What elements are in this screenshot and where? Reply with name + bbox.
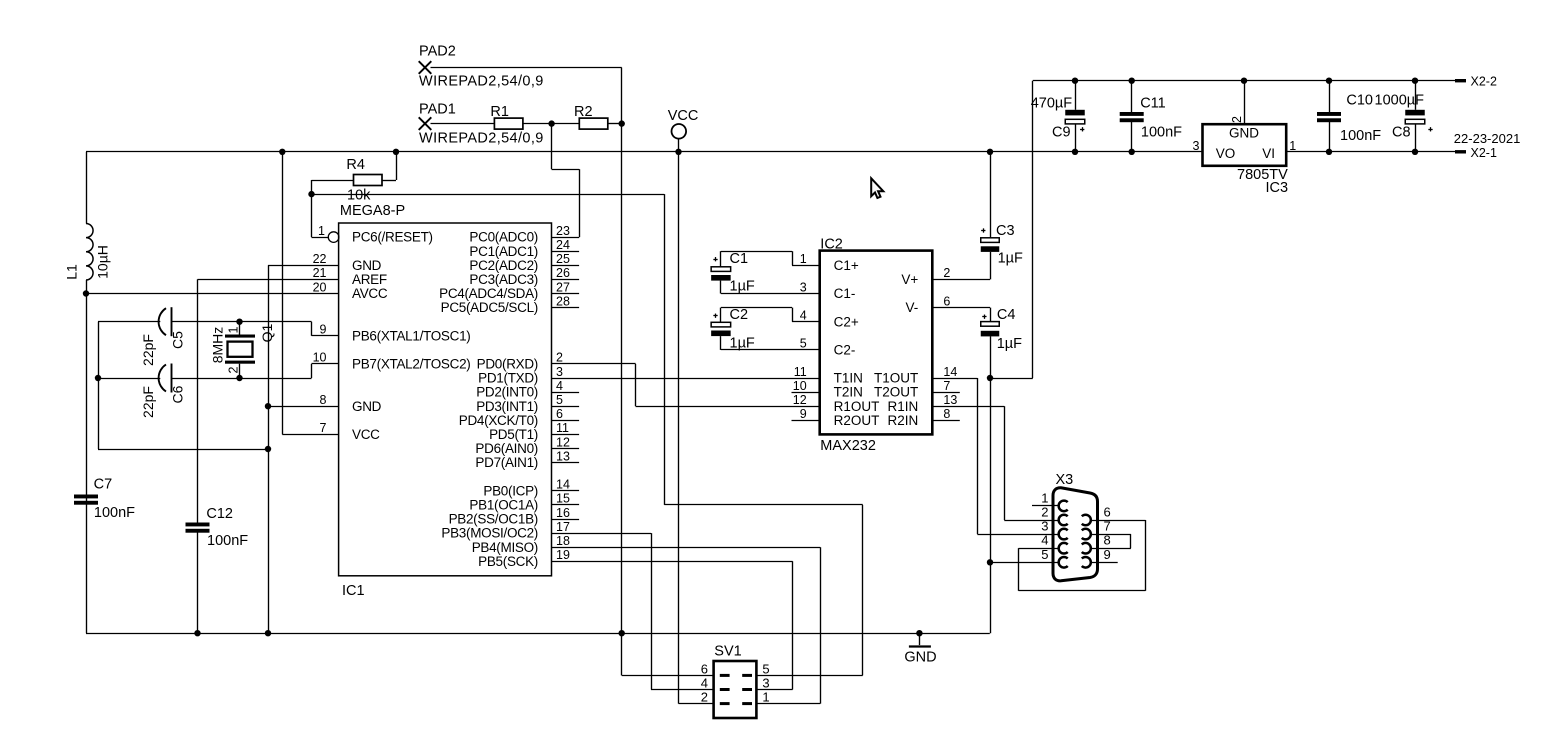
svg-text:7: 7 [943, 379, 950, 393]
svg-text:10: 10 [313, 351, 327, 365]
svg-text:WIREPAD2,54/0,9: WIREPAD2,54/0,9 [419, 131, 544, 147]
svg-text:T1IN: T1IN [834, 371, 863, 386]
svg-text:T2OUT: T2OUT [874, 385, 918, 400]
svg-text:L1: L1 [64, 264, 80, 280]
svg-text:100nF: 100nF [207, 533, 248, 549]
svg-text:PD3(INT1): PD3(INT1) [476, 399, 538, 414]
svg-text:R4: R4 [346, 157, 365, 173]
svg-text:PC6(/RESET): PC6(/RESET) [352, 230, 433, 245]
svg-text:PD5(T1): PD5(T1) [489, 427, 538, 442]
svg-text:23: 23 [556, 224, 570, 238]
svg-text:R1IN: R1IN [888, 399, 919, 414]
svg-text:VO: VO [1216, 146, 1236, 161]
svg-text:IC3: IC3 [1266, 180, 1289, 196]
svg-text:12: 12 [793, 393, 807, 407]
svg-text:11: 11 [794, 365, 807, 379]
svg-text:17: 17 [556, 520, 570, 534]
svg-text:1: 1 [318, 224, 325, 238]
svg-text:X2-1: X2-1 [1471, 146, 1497, 160]
svg-text:12: 12 [556, 435, 570, 449]
svg-text:19: 19 [556, 548, 570, 562]
svg-text:22pF: 22pF [140, 334, 156, 366]
svg-text:GND: GND [1229, 126, 1259, 141]
svg-text:C1: C1 [730, 251, 749, 267]
svg-text:WIREPAD2,54/0,9: WIREPAD2,54/0,9 [419, 73, 544, 89]
svg-text:6: 6 [701, 661, 708, 676]
svg-text:25: 25 [556, 252, 570, 266]
svg-text:1: 1 [800, 252, 807, 266]
svg-text:1µF: 1µF [998, 251, 1023, 267]
svg-text:2: 2 [556, 351, 563, 365]
svg-text:22-23-2021: 22-23-2021 [1454, 131, 1521, 146]
svg-text:C2+: C2+ [834, 314, 859, 329]
svg-text:1: 1 [1289, 139, 1296, 153]
svg-text:11: 11 [556, 421, 569, 435]
svg-text:PB0(ICP): PB0(ICP) [483, 483, 538, 498]
svg-text:C12: C12 [206, 506, 233, 522]
svg-text:10k: 10k [347, 188, 371, 204]
svg-text:20: 20 [313, 280, 327, 294]
svg-text:18: 18 [556, 534, 570, 548]
svg-text:V-: V- [906, 300, 919, 315]
svg-text:VCC: VCC [668, 108, 699, 124]
svg-text:5: 5 [800, 337, 807, 351]
svg-text:22pF: 22pF [140, 386, 156, 418]
svg-text:1000µF: 1000µF [1375, 93, 1425, 109]
svg-text:1µF: 1µF [730, 336, 755, 352]
svg-text:SV1: SV1 [714, 644, 741, 660]
svg-text:3: 3 [1193, 139, 1200, 153]
svg-text:PD1(TXD): PD1(TXD) [478, 371, 538, 386]
svg-text:C1+: C1+ [834, 258, 859, 273]
svg-text:T2IN: T2IN [834, 385, 863, 400]
svg-text:VCC: VCC [352, 427, 380, 442]
svg-text:AREF: AREF [352, 272, 387, 287]
svg-text:8: 8 [943, 407, 950, 421]
svg-text:C7: C7 [94, 477, 113, 493]
svg-text:8MHz: 8MHz [210, 327, 226, 364]
svg-text:27: 27 [556, 280, 570, 294]
svg-text:1µF: 1µF [997, 336, 1022, 352]
svg-text:C6: C6 [170, 385, 186, 403]
svg-text:PC2(ADC2): PC2(ADC2) [469, 258, 538, 273]
svg-text:100nF: 100nF [1141, 125, 1182, 141]
svg-text:28: 28 [556, 294, 570, 308]
svg-text:24: 24 [556, 238, 570, 252]
svg-text:PD2(INT0): PD2(INT0) [476, 385, 538, 400]
svg-text:9: 9 [800, 407, 807, 421]
svg-text:AVCC: AVCC [352, 286, 388, 301]
svg-text:6: 6 [556, 407, 563, 421]
svg-text:X3: X3 [1056, 472, 1074, 488]
svg-text:PC4(ADC4/SDA): PC4(ADC4/SDA) [439, 286, 538, 301]
svg-text:C3: C3 [996, 223, 1015, 239]
svg-text:V+: V+ [901, 272, 918, 287]
svg-text:13: 13 [556, 449, 570, 463]
svg-text:2: 2 [227, 366, 241, 373]
svg-text:PB2(SS/OC1B): PB2(SS/OC1B) [449, 512, 538, 527]
svg-text:1µF: 1µF [730, 279, 755, 295]
svg-text:C11: C11 [1140, 96, 1166, 112]
svg-text:PD7(AIN1): PD7(AIN1) [475, 455, 538, 470]
svg-text:5: 5 [556, 393, 563, 407]
svg-text:C4: C4 [997, 307, 1016, 323]
svg-text:GND: GND [904, 650, 936, 666]
svg-text:3: 3 [556, 365, 563, 379]
svg-text:100nF: 100nF [94, 505, 135, 521]
svg-text:C9: C9 [1052, 125, 1071, 141]
svg-text:21: 21 [313, 266, 327, 280]
svg-text:C8: C8 [1392, 125, 1411, 141]
svg-text:3: 3 [762, 676, 769, 691]
svg-text:R2IN: R2IN [888, 413, 919, 428]
svg-text:PB7(XTAL2/TOSC2): PB7(XTAL2/TOSC2) [352, 357, 471, 372]
svg-text:R2: R2 [574, 104, 593, 120]
svg-text:R2OUT: R2OUT [834, 413, 880, 428]
svg-text:6: 6 [1104, 505, 1111, 520]
svg-text:GND: GND [352, 399, 382, 414]
svg-text:10: 10 [793, 379, 807, 393]
svg-text:4: 4 [701, 676, 708, 691]
svg-text:PAD2: PAD2 [419, 44, 456, 60]
svg-text:470µF: 470µF [1031, 96, 1073, 112]
svg-text:PC0(ADC0): PC0(ADC0) [469, 230, 538, 245]
svg-text:1: 1 [1041, 490, 1048, 505]
svg-text:26: 26 [556, 266, 570, 280]
svg-text:10µH: 10µH [95, 245, 111, 279]
svg-text:13: 13 [943, 393, 957, 407]
svg-text:2: 2 [1230, 116, 1244, 123]
svg-text:PD6(AIN0): PD6(AIN0) [475, 441, 538, 456]
svg-text:GND: GND [352, 258, 382, 273]
svg-text:IC1: IC1 [342, 583, 365, 599]
svg-text:Q1: Q1 [259, 323, 275, 342]
svg-text:2: 2 [701, 690, 708, 705]
svg-text:PB1(OC1A): PB1(OC1A) [469, 498, 538, 513]
svg-text:T1OUT: T1OUT [874, 371, 918, 386]
svg-text:PD0(RXD): PD0(RXD) [477, 357, 538, 372]
svg-text:PB5(SCK): PB5(SCK) [478, 554, 538, 569]
svg-text:MEGA8-P: MEGA8-P [340, 203, 405, 219]
svg-text:7: 7 [320, 421, 327, 435]
svg-text:PC5(ADC5/SCL): PC5(ADC5/SCL) [441, 300, 538, 315]
svg-text:6: 6 [943, 294, 950, 308]
svg-text:C1-: C1- [834, 286, 856, 301]
svg-text:2: 2 [1041, 505, 1048, 520]
svg-text:1: 1 [762, 690, 769, 705]
svg-text:R1: R1 [490, 104, 509, 120]
svg-text:16: 16 [556, 506, 570, 520]
svg-text:2: 2 [943, 266, 950, 280]
svg-text:PAD1: PAD1 [419, 102, 456, 118]
svg-text:MAX232: MAX232 [820, 438, 876, 454]
svg-text:100nF: 100nF [1340, 128, 1381, 144]
svg-text:22: 22 [313, 252, 327, 266]
svg-text:R1OUT: R1OUT [834, 399, 880, 414]
svg-text:9: 9 [320, 323, 327, 337]
svg-text:4: 4 [800, 309, 807, 323]
svg-text:5: 5 [762, 661, 769, 676]
svg-text:PB6(XTAL1/TOSC1): PB6(XTAL1/TOSC1) [352, 328, 471, 343]
svg-text:3: 3 [800, 280, 807, 294]
svg-text:1: 1 [227, 326, 241, 333]
svg-text:PC1(ADC1): PC1(ADC1) [469, 244, 538, 259]
svg-text:4: 4 [556, 379, 563, 393]
svg-text:C2: C2 [730, 307, 749, 323]
svg-text:PC3(ADC3): PC3(ADC3) [469, 272, 538, 287]
svg-text:8: 8 [320, 393, 327, 407]
svg-text:14: 14 [943, 365, 957, 379]
svg-text:PD4(XCK/T0): PD4(XCK/T0) [459, 413, 538, 428]
svg-text:X2-2: X2-2 [1471, 75, 1497, 89]
svg-text:PB4(MISO): PB4(MISO) [472, 540, 538, 555]
svg-text:C5: C5 [170, 331, 186, 349]
svg-text:C2-: C2- [834, 343, 856, 358]
svg-text:14: 14 [556, 478, 570, 492]
svg-text:15: 15 [556, 492, 570, 506]
svg-text:C10: C10 [1346, 93, 1373, 109]
svg-text:VI: VI [1262, 146, 1275, 161]
svg-text:IC2: IC2 [820, 237, 843, 253]
svg-text:PB3(MOSI/OC2): PB3(MOSI/OC2) [441, 526, 538, 541]
